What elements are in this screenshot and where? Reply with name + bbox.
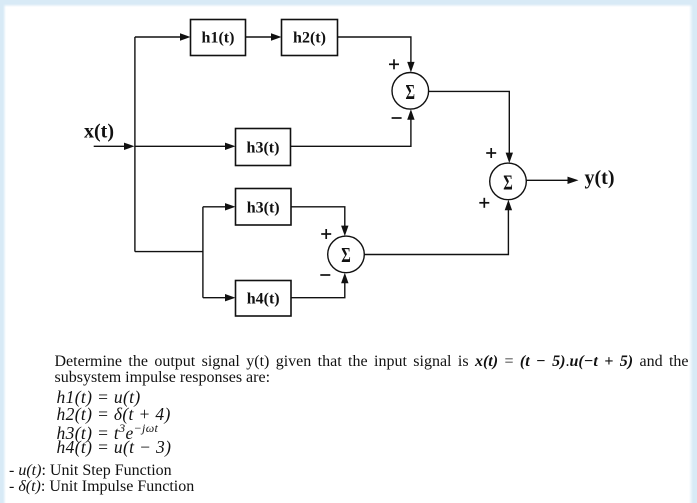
arrowhead: output to y(t) — [568, 177, 579, 184]
sign minus at S2 bottom — [320, 274, 330, 276]
problem text line 2 — [55, 369, 271, 387]
arrowhead: into S2 top — [341, 226, 348, 237]
wire: h2 to summer S1 top — [338, 37, 411, 68]
svg-text:Σ: Σ — [406, 80, 416, 104]
note delta(t) — [9, 478, 194, 496]
wire: summer S3 to y(t) output — [526, 179, 570, 181]
problem text line 1 — [55, 353, 689, 371]
formula h3 — [57, 421, 159, 444]
block h4 — [236, 281, 292, 317]
arrowhead: into h1 — [180, 33, 191, 40]
wire: x(t) input — [94, 145, 131, 147]
arrowhead: into h3b — [225, 203, 236, 210]
border strip right — [689, 0, 697, 503]
arrowhead: into S2 bottom — [341, 273, 348, 284]
block h3b — [236, 189, 292, 226]
svg-text:h3(t): h3(t) — [247, 139, 280, 156]
arrowhead: input into trunk junction — [124, 143, 135, 150]
arrowhead: into h3a — [225, 143, 236, 150]
wire: h3b to summer S2 top — [291, 207, 345, 232]
sign plus at S3 top — [486, 148, 496, 158]
wire: trunk bottom arm — [135, 251, 203, 253]
sign minus at S1 bottom — [392, 117, 402, 119]
border strip top — [0, 0, 697, 7]
block h1 — [191, 20, 246, 56]
svg-text:Σ: Σ — [341, 243, 351, 267]
svg-text:x(t): x(t) — [84, 121, 114, 143]
sign plus at S3 bottom — [479, 198, 489, 208]
wire: trunk to h3a — [135, 145, 231, 147]
node: lower branch vertical — [202, 207, 204, 298]
arrowhead: into S1 bottom — [407, 109, 414, 120]
formula h2 — [57, 404, 171, 425]
wire: h4 to summer S2 bottom — [291, 278, 345, 298]
node: input trunk vertical — [134, 37, 136, 252]
arrowhead: into S1 top — [407, 62, 414, 73]
block h2 — [282, 20, 338, 56]
wire: summer S2 to summer S3 bottom — [364, 205, 508, 255]
svg-text:y(t): y(t) — [585, 167, 615, 189]
wire: branch to h4 — [203, 297, 231, 299]
wire: branch to h3b — [203, 206, 231, 208]
block h3a — [236, 129, 291, 166]
svg-text:h1(t): h1(t) — [202, 30, 235, 47]
sign plus at S1 top — [389, 59, 399, 69]
arrowhead: into h2 — [271, 33, 282, 40]
wire: h1 to h2 — [246, 36, 278, 38]
svg-text:h4(t): h4(t) — [247, 291, 280, 308]
wire: h3a to summer S1 bottom — [291, 114, 411, 146]
arrowhead: into S3 top — [506, 153, 513, 164]
wire: summer S1 to summer S3 top — [429, 91, 510, 158]
formula h1 — [57, 387, 141, 408]
svg-text:h3(t): h3(t) — [247, 199, 280, 216]
svg-text:h2(t): h2(t) — [293, 30, 326, 47]
arrowhead: into h4 — [225, 294, 236, 301]
summer S3 — [490, 163, 527, 200]
wire: trunk to h1 — [135, 36, 186, 38]
formula h4 — [57, 437, 172, 458]
svg-text:Σ: Σ — [503, 170, 513, 194]
summer S2 — [328, 236, 365, 273]
arrowhead: into S3 bottom — [505, 200, 512, 211]
sign plus at S2 top — [321, 229, 331, 239]
border strip left — [0, 0, 6, 503]
note u(t) — [9, 462, 172, 480]
summer S1 — [392, 73, 429, 110]
